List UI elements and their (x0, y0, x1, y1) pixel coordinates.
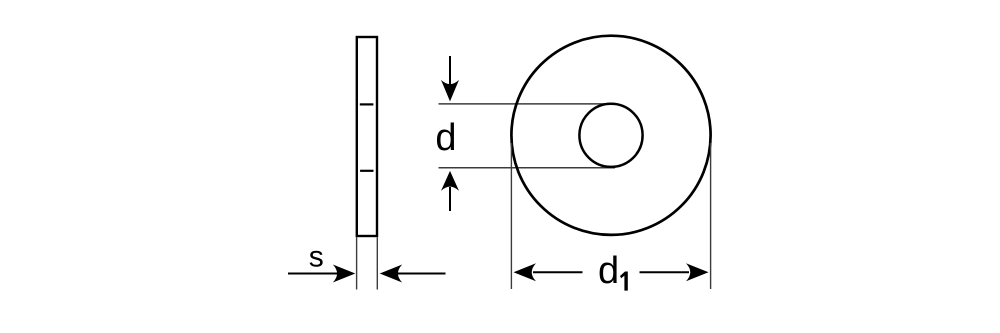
svg-text:d: d (435, 117, 456, 159)
d1 extension line left (510, 143, 512, 289)
d lower dimension line (439, 167, 616, 169)
s dimension left arrow (288, 265, 355, 283)
d1 extension line right (710, 143, 712, 289)
svg-text:d: d (598, 250, 619, 292)
s dimension right arrow (380, 265, 446, 283)
label d1 (598, 250, 628, 292)
d upper dimension line (439, 103, 613, 105)
washer inner circle (579, 104, 642, 167)
svg-text:s: s (309, 241, 324, 274)
s extension line right (376, 237, 378, 289)
washer outer circle (511, 36, 710, 235)
d1 dimension right arrow (640, 263, 709, 281)
washer side view outline (357, 37, 377, 236)
hole edge tick lower (360, 170, 373, 172)
d1 dimension left arrow (514, 263, 583, 281)
d dimension up arrow (441, 171, 459, 211)
s extension line left (356, 237, 358, 289)
d dimension down arrow (441, 56, 459, 101)
hole edge tick upper (360, 103, 374, 105)
